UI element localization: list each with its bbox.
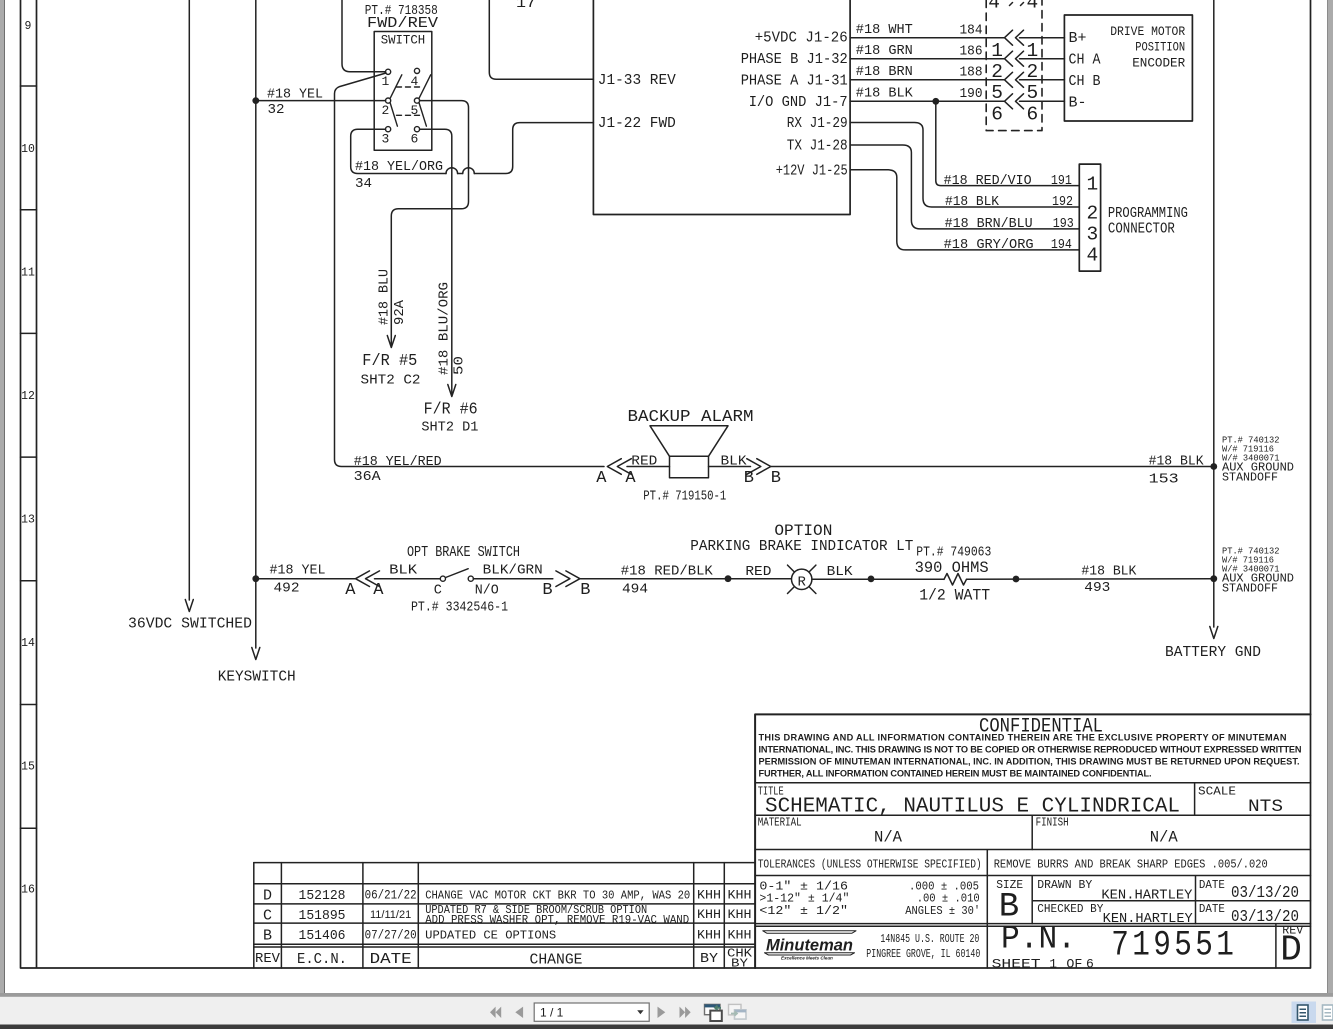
backup alarm title bbox=[628, 408, 754, 427]
svg-text:I/O GND J1-7: I/O GND J1-7 bbox=[749, 94, 848, 111]
svg-text:1: 1 bbox=[1027, 40, 1039, 62]
svg-text:#18 RED/BLK: #18 RED/BLK bbox=[621, 564, 713, 580]
svg-text:KHH: KHH bbox=[697, 929, 721, 943]
svg-text:6: 6 bbox=[1027, 104, 1039, 126]
svg-text:193: 193 bbox=[1053, 216, 1074, 232]
label 36A bbox=[354, 469, 382, 485]
svg-text:188: 188 bbox=[960, 65, 983, 81]
svg-text:#18 YEL: #18 YEL bbox=[267, 87, 323, 103]
svg-text:STANDOFF: STANDOFF bbox=[1222, 583, 1278, 596]
svg-text:DRIVE MOTOR: DRIVE MOTOR bbox=[1110, 24, 1185, 39]
label #18 BLK 192 bbox=[945, 194, 1073, 210]
label 34 bbox=[355, 176, 372, 192]
svg-text:#18 BRN: #18 BRN bbox=[856, 64, 913, 80]
label #18 WHT 184 bbox=[856, 22, 983, 39]
label #18 YEL 492 bbox=[270, 563, 326, 597]
svg-text:OF: OF bbox=[1066, 957, 1082, 972]
wire #18 RED/BLK 494 bbox=[580, 578, 791, 580]
label #18 RED/BLK 494 bbox=[621, 564, 713, 598]
svg-text:A: A bbox=[345, 581, 356, 600]
svg-text:151406: 151406 bbox=[299, 929, 346, 944]
wire resistor to bus #18 BLK 493 bbox=[967, 578, 1214, 581]
svg-text:BACKUP ALARM: BACKUP ALARM bbox=[628, 408, 754, 427]
label BLK/GRN bbox=[483, 563, 543, 579]
svg-text:11: 11 bbox=[21, 267, 35, 280]
svg-text:#18 YEL/RED: #18 YEL/RED bbox=[354, 454, 442, 470]
title block outline bbox=[755, 714, 1310, 968]
svg-text:Excellence Meets Clean: Excellence Meets Clean bbox=[781, 956, 833, 961]
svg-text:153: 153 bbox=[1149, 472, 1179, 488]
svg-text:A: A bbox=[373, 581, 384, 600]
svg-text:#18 YEL: #18 YEL bbox=[270, 563, 326, 579]
svg-text:DATE: DATE bbox=[370, 952, 412, 968]
svg-text:F/R #5: F/R #5 bbox=[362, 352, 417, 371]
part number 719551 bbox=[1111, 926, 1237, 966]
svg-text:#18 BLK: #18 BLK bbox=[1081, 564, 1136, 580]
svg-text:#18 BLU: #18 BLU bbox=[377, 269, 393, 325]
svg-text:192: 192 bbox=[1052, 194, 1073, 210]
resistor R1 part number bbox=[916, 545, 991, 561]
encoder pin B+ bbox=[1069, 31, 1087, 47]
revision table row B bbox=[263, 928, 752, 945]
wire BLK/GRN (brake) bbox=[473, 578, 553, 580]
svg-text:R: R bbox=[797, 575, 806, 591]
tolerances row line bbox=[755, 850, 1310, 876]
svg-text:CHANGE: CHANGE bbox=[530, 952, 583, 969]
bottom row line bbox=[755, 924, 1310, 968]
svg-text:E.C.N.: E.C.N. bbox=[297, 952, 347, 968]
svg-text:D: D bbox=[1280, 930, 1302, 971]
svg-text:B: B bbox=[580, 581, 590, 600]
svg-text:+5VDC J1-26: +5VDC J1-26 bbox=[755, 30, 848, 47]
connector B chevrons (brake) bbox=[556, 571, 580, 587]
switch S1 body bbox=[374, 32, 432, 151]
wire keyswitch vertical bbox=[252, 0, 260, 660]
svg-text:1 / 1: 1 / 1 bbox=[540, 1005, 564, 1019]
svg-text:#18 RED/VIO: #18 RED/VIO bbox=[944, 173, 1032, 189]
label BLK (brake) bbox=[389, 563, 418, 579]
svg-text:UPDATED CE OPTIONS: UPDATED CE OPTIONS bbox=[425, 929, 556, 943]
DATE label 2 bbox=[1199, 902, 1225, 916]
svg-text:SCALE: SCALE bbox=[1198, 786, 1236, 799]
svg-text:1: 1 bbox=[991, 40, 1003, 62]
svg-text:TOLERANCES (UNLESS OTHERWISE S: TOLERANCES (UNLESS OTHERWISE SPECIFIED) bbox=[758, 857, 982, 871]
svg-text:4: 4 bbox=[1087, 245, 1099, 267]
svg-text:B: B bbox=[263, 928, 272, 945]
svg-text:<12": <12" bbox=[759, 904, 791, 918]
svg-text:± 1/2": ± 1/2" bbox=[800, 904, 848, 918]
svg-text:F/R #6: F/R #6 bbox=[424, 401, 478, 420]
svg-text:12: 12 bbox=[21, 390, 35, 403]
backup alarm BZ1 body bbox=[670, 456, 709, 477]
svg-text:+12V J1-25: +12V J1-25 bbox=[776, 162, 848, 179]
SHEET 1 OF 6 bbox=[992, 957, 1094, 972]
P.N. label bbox=[1001, 921, 1076, 958]
svg-text:PT.# 719150-1: PT.# 719150-1 bbox=[643, 489, 726, 505]
svg-text:PROGRAMMING: PROGRAMMING bbox=[1108, 206, 1188, 222]
wire 17 (J1-33 REV feed) bbox=[489, 0, 593, 79]
programming connector J2 box bbox=[1079, 164, 1100, 271]
checked date bbox=[1231, 907, 1299, 926]
TITLE label bbox=[758, 786, 784, 799]
inline connector P2 pin numbers bbox=[991, 40, 1038, 126]
wire alarm to bus #18 BLK 153 bbox=[771, 466, 1214, 468]
wire #18 GRY/ORG 194 (+12V J1-25) bbox=[850, 170, 1079, 250]
svg-text:PHASE B J1-32: PHASE B J1-32 bbox=[741, 51, 848, 68]
material row line bbox=[755, 815, 1310, 849]
svg-text:A: A bbox=[625, 469, 636, 488]
wire lamp to resistor bbox=[812, 578, 944, 580]
label RED (alarm) bbox=[631, 454, 657, 470]
label B B (brake) bbox=[542, 581, 590, 600]
svg-text:B: B bbox=[744, 469, 754, 488]
svg-text:3: 3 bbox=[1087, 224, 1099, 246]
switch S1 pin 6 bbox=[411, 127, 420, 147]
svg-text:DATE: DATE bbox=[1199, 878, 1225, 892]
label #18 YEL/ORG bbox=[355, 159, 443, 175]
svg-text:KHH: KHH bbox=[697, 889, 721, 903]
CHECKED BY label bbox=[1037, 902, 1103, 916]
svg-text:152128: 152128 bbox=[299, 889, 346, 904]
svg-text:BY: BY bbox=[731, 957, 748, 971]
svg-text:N/A: N/A bbox=[874, 829, 902, 847]
svg-text:FINISH: FINISH bbox=[1036, 817, 1069, 830]
title block title row line bbox=[755, 783, 1310, 816]
wire #18 YEL 32 to S1 pin 2 bbox=[256, 100, 386, 102]
svg-text:OPTION: OPTION bbox=[774, 522, 832, 540]
svg-text:SHT2 D1: SHT2 D1 bbox=[421, 420, 478, 436]
label 32 bbox=[268, 102, 285, 118]
connector B chevrons (alarm) bbox=[747, 459, 771, 475]
svg-text:1: 1 bbox=[382, 74, 390, 89]
svg-text:B: B bbox=[771, 469, 781, 488]
switch S1 pin 2 bbox=[382, 98, 391, 118]
REV label bbox=[1282, 925, 1303, 938]
wire alarm to chevron B bbox=[709, 466, 751, 468]
SCALE label bbox=[1198, 786, 1236, 799]
Minuteman logo bbox=[763, 931, 856, 961]
MATERIAL label bbox=[758, 817, 802, 830]
svg-text:390 OHMS: 390 OHMS bbox=[915, 559, 989, 577]
encoder title bbox=[1110, 24, 1185, 71]
address line 1 bbox=[880, 933, 979, 946]
inline connector P2 chevron contacts bbox=[1005, 30, 1024, 109]
svg-text:B+: B+ bbox=[1069, 31, 1087, 47]
svg-text:CHANGE VAC MOTOR CKT BKR TO 30: CHANGE VAC MOTOR CKT BKR TO 30 AMP, WAS … bbox=[425, 889, 690, 903]
svg-text:1/2 WATT: 1/2 WATT bbox=[919, 587, 990, 605]
switch S1 mechanical link lower bbox=[397, 114, 422, 116]
brake switch S2 bbox=[440, 569, 473, 582]
svg-text:BY: BY bbox=[700, 951, 719, 967]
wire #18 YEL 492 bbox=[256, 578, 355, 580]
label A A (alarm) bbox=[596, 469, 636, 488]
svg-text:PINGREE GROVE, IL 60140: PINGREE GROVE, IL 60140 bbox=[866, 948, 980, 961]
svg-text:CH B: CH B bbox=[1069, 74, 1101, 90]
svg-text:CH A: CH A bbox=[1069, 53, 1101, 69]
svg-text:1: 1 bbox=[1049, 957, 1057, 972]
FINISH label bbox=[1036, 817, 1069, 830]
REMOVE BURRS header bbox=[994, 857, 1268, 871]
svg-text:#18 WHT: #18 WHT bbox=[856, 22, 913, 38]
size B bbox=[999, 889, 1019, 927]
svg-text:06/21/22: 06/21/22 bbox=[365, 889, 417, 903]
svg-text:STANDOFF: STANDOFF bbox=[1222, 472, 1278, 485]
connector A chevrons (brake) bbox=[356, 571, 380, 587]
DRAWN BY label bbox=[1037, 878, 1092, 892]
controller U1 pin J1-22 FWD label bbox=[598, 115, 676, 132]
svg-text:151895: 151895 bbox=[299, 909, 346, 924]
checked by name bbox=[1103, 912, 1193, 927]
inline connector P2 dashed outline bbox=[986, 0, 1042, 131]
aux ground bus wire bbox=[1210, 0, 1218, 639]
inline connector P2 pin 4 row (cut at top) bbox=[988, 0, 1038, 13]
svg-text:FURTHER, ALL INFORMATION CONTA: FURTHER, ALL INFORMATION CONTAINED HEREI… bbox=[759, 769, 1152, 779]
wire S1 pin3 #18 YEL/ORG to J1-22 FWD bbox=[351, 123, 594, 174]
wire number 17 label bbox=[516, 0, 536, 12]
svg-text:D: D bbox=[263, 888, 272, 905]
svg-text:17: 17 bbox=[516, 0, 536, 12]
switch S1 lever pole A up bbox=[390, 75, 402, 98]
backup alarm part number bbox=[643, 489, 726, 505]
svg-text:190: 190 bbox=[960, 86, 983, 102]
label #18 BLU (rotated) bbox=[377, 269, 393, 325]
svg-text:3: 3 bbox=[382, 132, 390, 147]
label 1/2 WATT bbox=[919, 587, 990, 605]
programming connector pin numbers bbox=[1087, 174, 1099, 267]
svg-text:B: B bbox=[542, 581, 552, 600]
svg-text:KHH: KHH bbox=[728, 929, 752, 943]
label F/R #6 bbox=[424, 401, 478, 420]
svg-text:KHH: KHH bbox=[697, 908, 721, 922]
label N/O bbox=[475, 583, 499, 599]
svg-text:494: 494 bbox=[622, 582, 648, 598]
switch S1 mechanical link upper bbox=[397, 86, 422, 88]
svg-text:492: 492 bbox=[274, 581, 300, 597]
svg-text:4: 4 bbox=[1027, 0, 1039, 13]
svg-text:92A: 92A bbox=[392, 299, 408, 325]
svg-text:Minuteman: Minuteman bbox=[766, 937, 853, 955]
switch S1 name FWD/REV bbox=[367, 16, 438, 32]
label #18 BRN 188 bbox=[856, 64, 983, 81]
controller U1 pin J1-33 REV label bbox=[598, 72, 676, 89]
switch S1 lever pole B up bbox=[419, 75, 431, 98]
svg-text:6: 6 bbox=[1086, 957, 1094, 972]
svg-text:719551: 719551 bbox=[1111, 926, 1237, 966]
revision table grid bbox=[254, 863, 755, 968]
svg-text:10: 10 bbox=[21, 143, 35, 156]
svg-text:184: 184 bbox=[960, 23, 983, 39]
svg-text:6: 6 bbox=[411, 132, 419, 147]
svg-text:SHEET: SHEET bbox=[992, 957, 1041, 972]
svg-text:REMOVE BURRS AND BREAK SHARP E: REMOVE BURRS AND BREAK SHARP EDGES .005/… bbox=[994, 857, 1268, 871]
wire S1 pin1 to backup alarm row (#18 YEL/RED) bbox=[335, 73, 605, 467]
svg-text:SHT2 C2: SHT2 C2 bbox=[361, 373, 421, 389]
svg-text:2: 2 bbox=[1027, 61, 1039, 83]
encoder pin B- bbox=[1069, 96, 1087, 112]
svg-text:PT.# 3342546-1: PT.# 3342546-1 bbox=[411, 600, 508, 616]
wire S1 pin6 to F/R #6 bbox=[420, 129, 456, 396]
switch S1 lever pole A down bbox=[390, 103, 397, 126]
svg-text:2: 2 bbox=[382, 103, 390, 118]
label #18 BLU/ORG (rotated) bbox=[437, 282, 453, 375]
rev D bbox=[1280, 930, 1302, 971]
OPTION label bbox=[774, 522, 832, 540]
switch S1 SWITCH label bbox=[381, 34, 426, 48]
title block CONFIDENTIAL bbox=[979, 716, 1103, 739]
brake switch part number bbox=[411, 600, 508, 616]
label #18 GRN 186 bbox=[856, 43, 983, 60]
svg-text:N/O: N/O bbox=[475, 583, 499, 599]
svg-text:BLK: BLK bbox=[721, 454, 747, 470]
svg-text:32: 32 bbox=[268, 102, 285, 118]
address line 2 bbox=[866, 948, 980, 961]
wire hop over F/R #5 wire bbox=[463, 168, 475, 174]
svg-text:14: 14 bbox=[21, 637, 35, 650]
svg-text:14N845 U.S. ROUTE 20: 14N845 U.S. ROUTE 20 bbox=[880, 933, 979, 946]
svg-text:2: 2 bbox=[991, 61, 1003, 83]
label #18 BLK 153 bbox=[1149, 454, 1204, 488]
svg-text:1: 1 bbox=[1087, 174, 1099, 196]
svg-text:KEYSWITCH: KEYSWITCH bbox=[218, 669, 296, 686]
switch S1 pin 4 bbox=[411, 68, 420, 89]
label 92A (rotated) bbox=[392, 299, 408, 325]
drawing title bbox=[765, 796, 1180, 819]
controller box U1 (J1) bbox=[593, 0, 850, 215]
drawn date bbox=[1231, 883, 1299, 902]
junction dot keyswitch branch bbox=[252, 575, 259, 582]
svg-text:N/A: N/A bbox=[1150, 829, 1178, 847]
label F/R #5 bbox=[362, 352, 417, 371]
SIZE label bbox=[996, 878, 1023, 892]
resistor R1 bbox=[944, 574, 967, 586]
svg-text:DRAWN BY: DRAWN BY bbox=[1037, 878, 1092, 892]
svg-text:A: A bbox=[596, 469, 607, 488]
finish N/A bbox=[1150, 829, 1178, 847]
svg-text:PERMISSION OF MINUTEMAN INTERN: PERMISSION OF MINUTEMAN INTERNATIONAL, I… bbox=[759, 757, 1300, 767]
svg-text:4: 4 bbox=[988, 0, 1000, 13]
svg-text:TX J1-28: TX J1-28 bbox=[787, 137, 848, 154]
svg-text:SWITCH: SWITCH bbox=[381, 34, 426, 48]
scale NTS bbox=[1248, 797, 1283, 817]
svg-text:J1-33 REV: J1-33 REV bbox=[598, 72, 676, 89]
svg-text:13: 13 bbox=[21, 514, 35, 527]
svg-text:#18 YEL/ORG: #18 YEL/ORG bbox=[355, 159, 443, 175]
svg-text:OPT BRAKE SWITCH: OPT BRAKE SWITCH bbox=[407, 545, 520, 561]
encoder pin CH B bbox=[1069, 74, 1101, 90]
label #18 BLK 493 bbox=[1081, 564, 1136, 597]
wire BLK (brake) bbox=[375, 578, 441, 580]
aux ground standoff callout lower bbox=[1222, 546, 1294, 596]
svg-text:MATERIAL: MATERIAL bbox=[758, 817, 802, 830]
svg-text:50: 50 bbox=[451, 356, 467, 375]
svg-text:16: 16 bbox=[21, 884, 35, 897]
svg-text:C: C bbox=[263, 908, 272, 925]
label C bbox=[434, 584, 442, 599]
svg-text:#18 BLK: #18 BLK bbox=[856, 86, 913, 102]
junction dot on I/O GND wire bbox=[932, 98, 939, 105]
label SHT2 D1 bbox=[421, 420, 478, 436]
svg-text:RED: RED bbox=[745, 564, 771, 580]
drive motor position encoder box bbox=[1064, 15, 1192, 121]
junction dot right of lamp bbox=[868, 576, 875, 583]
label #18 BLK 190 bbox=[856, 86, 983, 103]
svg-text:BLK/GRN: BLK/GRN bbox=[483, 563, 543, 579]
wires U1 to encoder connector bbox=[850, 38, 1064, 102]
title block confidential paragraph bbox=[759, 733, 1302, 779]
svg-text:5: 5 bbox=[1027, 82, 1039, 104]
svg-text:THIS DRAWING AND ALL INFORMATI: THIS DRAWING AND ALL INFORMATION CONTAIN… bbox=[759, 733, 1287, 743]
tolerance values bbox=[759, 880, 980, 919]
switch S1 pin 3 bbox=[382, 127, 391, 147]
OPT BRAKE SWITCH label bbox=[407, 545, 520, 561]
svg-text:BATTERY GND: BATTERY GND bbox=[1165, 644, 1261, 661]
svg-text:#18 BLU/ORG: #18 BLU/ORG bbox=[437, 282, 453, 375]
wire from top to S1 pin 1 bbox=[342, 0, 386, 72]
svg-text:FWD/REV: FWD/REV bbox=[367, 16, 438, 32]
svg-text:BLK: BLK bbox=[389, 563, 418, 579]
svg-text:KHH: KHH bbox=[728, 889, 752, 903]
backup alarm BZ1 horn bbox=[650, 426, 728, 457]
svg-text:186: 186 bbox=[960, 44, 983, 60]
svg-text:REV: REV bbox=[255, 951, 281, 967]
svg-text:CONNECTOR: CONNECTOR bbox=[1108, 222, 1175, 238]
wire S1 pin5 to F/R #5 bbox=[387, 101, 468, 348]
svg-text:KHH: KHH bbox=[728, 908, 752, 922]
junction dot #18 YEL 32 bbox=[252, 97, 259, 104]
svg-text:J1-22 FWD: J1-22 FWD bbox=[598, 115, 676, 132]
revision table header row bbox=[255, 947, 753, 971]
controller U1 right pin labels bbox=[741, 30, 848, 180]
svg-text:36VDC SWITCHED: 36VDC SWITCHED bbox=[128, 616, 252, 633]
label #18 RED/VIO 191 bbox=[944, 173, 1072, 189]
junction dot bus at backup alarm row bbox=[1210, 463, 1217, 470]
label 50 (rotated) bbox=[451, 356, 467, 375]
svg-text:03/13/20: 03/13/20 bbox=[1231, 883, 1299, 902]
wire hop over F/R #6 wire bbox=[446, 168, 458, 174]
label SHT2 C2 bbox=[361, 373, 421, 389]
wire chevron A to alarm bbox=[627, 466, 670, 468]
revision table row D bbox=[263, 888, 752, 905]
svg-text:#18 BRN/BLU: #18 BRN/BLU bbox=[945, 216, 1033, 232]
label 390 OHMS bbox=[915, 559, 989, 577]
svg-text:#18 BLK: #18 BLK bbox=[945, 194, 999, 210]
parking brake indicator lamp DS1 bbox=[788, 565, 816, 593]
svg-text:C: C bbox=[434, 584, 442, 599]
svg-text:07/27/20: 07/27/20 bbox=[365, 929, 417, 943]
svg-text:ANGLES ± 30': ANGLES ± 30' bbox=[905, 904, 980, 918]
label B B (alarm) bbox=[744, 469, 781, 488]
aux ground standoff callout upper bbox=[1222, 435, 1294, 485]
wire #18 BRN/BLU 193 (TX J1-28) bbox=[850, 145, 1079, 229]
svg-text:11/11/21: 11/11/21 bbox=[370, 909, 411, 921]
border row numbers bbox=[21, 20, 35, 897]
BATTERY GND label bbox=[1165, 644, 1261, 661]
junction dot right of resistor bbox=[1013, 576, 1020, 583]
svg-text:RX J1-29: RX J1-29 bbox=[787, 115, 848, 132]
svg-text:ADD PRESS WASHER OPT, REMOVE R: ADD PRESS WASHER OPT, REMOVE R19-VAC WAN… bbox=[425, 914, 689, 927]
svg-text:DATE: DATE bbox=[1199, 902, 1225, 916]
label BLK (alarm) bbox=[721, 454, 747, 470]
switch S1 pin 1 bbox=[382, 69, 391, 89]
svg-text:CHECKED BY: CHECKED BY bbox=[1037, 902, 1103, 916]
label #18 YEL bbox=[267, 87, 323, 103]
switch S1 lever pole B down bbox=[419, 103, 426, 126]
label RED (lamp) bbox=[745, 564, 771, 580]
svg-text:POSITION: POSITION bbox=[1135, 40, 1185, 55]
DATE label 1 bbox=[1199, 878, 1225, 892]
material N/A bbox=[874, 829, 902, 847]
svg-text:INTERNATIONAL, INC. THIS DRAWI: INTERNATIONAL, INC. THIS DRAWING IS NOT … bbox=[759, 745, 1302, 755]
